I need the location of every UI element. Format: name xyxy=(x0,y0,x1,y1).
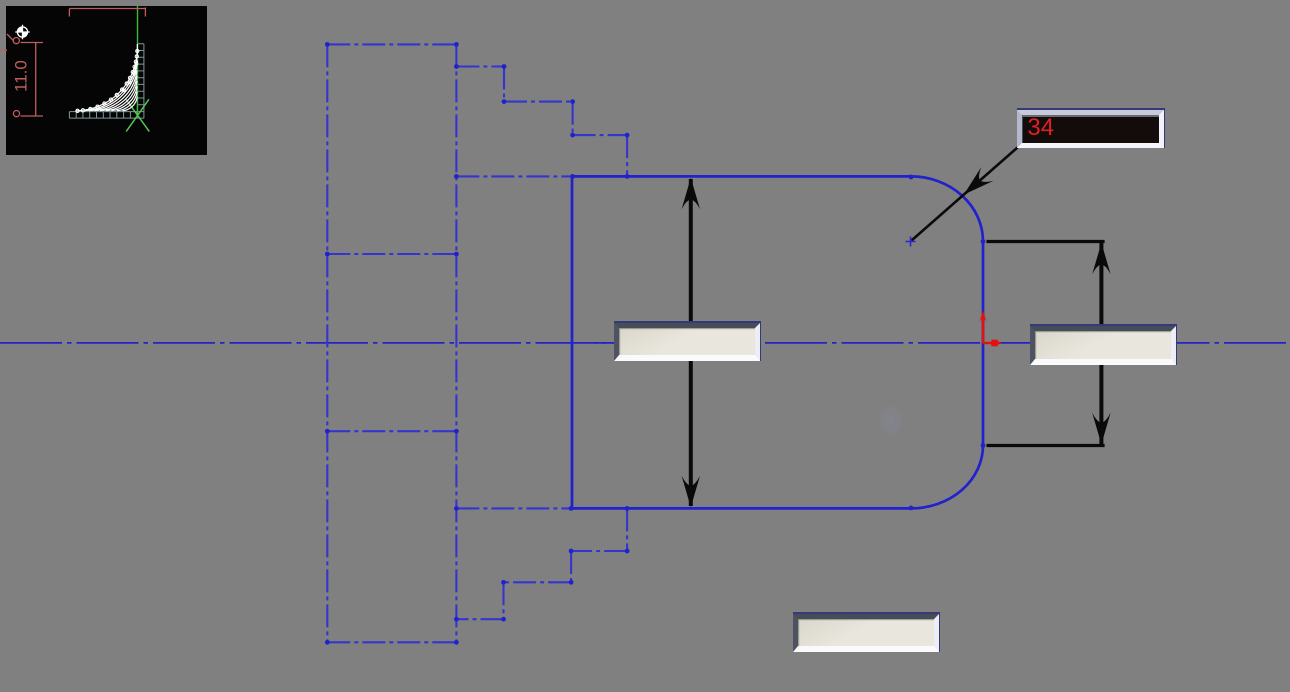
svg-text:11.0: 11.0 xyxy=(12,60,31,92)
